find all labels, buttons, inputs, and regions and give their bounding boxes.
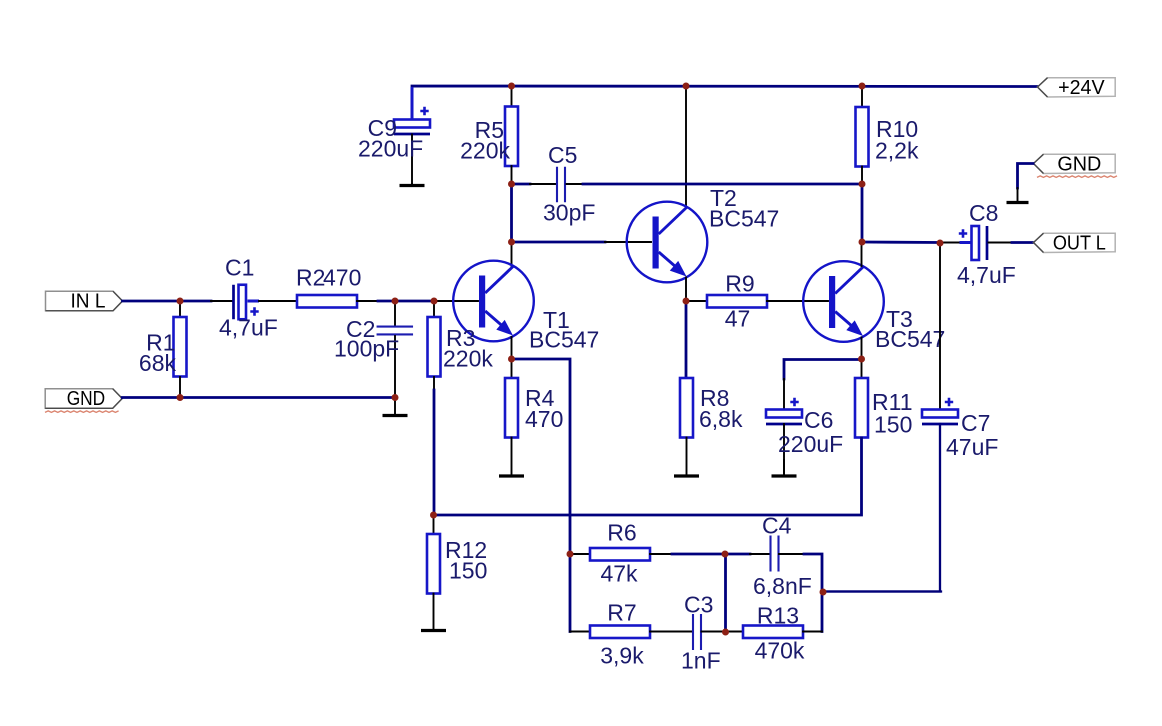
svg-text:C1: C1 (225, 255, 254, 281)
wire R5 bottom pin (511, 166, 513, 184)
node C4-C7 junction (820, 589, 827, 596)
wire C4 right pin (779, 553, 804, 555)
capacitor C8 4.7uF electrolytic (986, 226, 989, 260)
node rail-R10 junction (859, 83, 866, 90)
svg-text:220uF: 220uF (778, 431, 843, 457)
wire T1 collector to T2 base net (512, 241, 606, 244)
wire C1 right pin / R2 left pin (259, 300, 297, 302)
svg-text:C6: C6 (804, 407, 833, 433)
node C3-R13 junction (722, 629, 729, 636)
node T2 base junction (508, 239, 515, 246)
wire output net (862, 241, 940, 244)
wire C7 bottom horizontal (823, 590, 941, 592)
node T1 emitter junction (508, 356, 515, 363)
wire T2 emitter pin (685, 278, 687, 302)
wire C5 to R10 node (583, 183, 862, 186)
capacitor C1 4.7uF electrolytic (232, 285, 235, 320)
wire +24V rail (412, 86, 1038, 119)
svg-text:BC547: BC547 (709, 206, 779, 232)
wire C5 right pin (567, 183, 584, 185)
node R5-C5 junction (508, 181, 515, 188)
node T3 collector junction (859, 239, 866, 246)
svg-text:+24V: +24V (1058, 77, 1105, 99)
node C2 junction (392, 298, 399, 305)
capacitor C9 220uF electrolytic (394, 120, 430, 128)
svg-text:47: 47 (725, 306, 751, 332)
wire T2 emitter to R8 (685, 301, 688, 378)
wire C9 negative lead (411, 135, 413, 185)
resistor R3 220k (428, 317, 441, 377)
node input-R1 junction (177, 298, 184, 305)
ground below R12 (433, 594, 435, 630)
wire C3 right pin (702, 631, 726, 633)
svg-text:4,7uF: 4,7uF (957, 262, 1016, 288)
wire T2 base pin (605, 241, 651, 243)
wire R10 top pin (861, 86, 863, 107)
resistor R6 47k (590, 548, 650, 561)
svg-text:150: 150 (874, 412, 912, 438)
wire C2 bottom pin (394, 336, 396, 397)
transistor T1 BC547 (453, 261, 534, 342)
svg-text:BC547: BC547 (875, 326, 945, 352)
svg-text:R6: R6 (607, 520, 636, 546)
wire C4 left net (725, 553, 750, 556)
wire C6 positive pin (783, 379, 785, 410)
wire C7 bottom to feedback (824, 424, 941, 592)
svg-text:C5: C5 (548, 142, 577, 168)
spellcheck squiggle under GND (45, 411, 119, 413)
node R1-ground junction (177, 394, 184, 401)
C8 polarity + (959, 229, 967, 237)
wire T1 base pin (434, 300, 478, 302)
svg-text:BC547: BC547 (529, 327, 599, 353)
svg-text:GND: GND (67, 388, 106, 410)
svg-text:100pF: 100pF (334, 336, 399, 362)
wire R9 left pin (686, 300, 707, 302)
svg-text:1nF: 1nF (681, 648, 721, 674)
spellcheck squiggle under GND output (1037, 176, 1117, 178)
connector GND output (1034, 154, 1116, 173)
svg-text:470: 470 (323, 265, 361, 291)
svg-text:47uF: 47uF (946, 434, 998, 460)
svg-text:OUT L: OUT L (1053, 232, 1106, 254)
node rail-T2 junction (683, 83, 690, 90)
node R3-T1 base junction (431, 298, 438, 305)
wire GND connector drop (1018, 164, 1034, 189)
node T2 emitter junction (683, 298, 690, 305)
svg-text:C7: C7 (961, 410, 990, 436)
svg-text:470: 470 (525, 406, 563, 432)
wire C4 right to R13 right (804, 554, 822, 632)
wire T1 collector pin (511, 242, 513, 266)
wire ground net input (122, 396, 395, 399)
wire T1 emitter to R6 (512, 359, 571, 554)
node R10-C5 junction (859, 181, 866, 188)
svg-text:6,8nF: 6,8nF (753, 573, 812, 599)
transistor T3 BC547 (803, 261, 884, 342)
transistor T2 BC547 (627, 202, 708, 283)
wire C4 left pin (750, 553, 770, 555)
wire C9 positive lead (411, 87, 414, 119)
wire C5 left pin (530, 183, 556, 185)
wire R7 right pin / C3 left pin (650, 631, 693, 633)
resistor R11 150 (855, 378, 868, 438)
wire R1 bottom pin (179, 377, 181, 397)
ground below R4 (511, 438, 513, 476)
connector IN L (46, 291, 123, 311)
capacitor C4 6.8nF (771, 536, 779, 572)
wire R12 top pin (433, 515, 435, 534)
wire C6 negative lead (783, 424, 785, 474)
svg-text:68k: 68k (139, 350, 177, 376)
wire input net (123, 300, 212, 303)
C9 polarity + (420, 107, 428, 115)
node R6-C4 junction (722, 551, 729, 558)
wire R5 top pin (511, 86, 513, 107)
svg-text:C3: C3 (684, 592, 713, 618)
ground below C2 node (394, 398, 396, 415)
capacitor C2 100pF (377, 327, 414, 335)
resistor R2 470 (297, 295, 357, 308)
svg-text:2,2k: 2,2k (875, 138, 919, 164)
resistor R7 3.9k (590, 626, 650, 639)
svg-text:IN L: IN L (71, 291, 106, 313)
svg-text:R2: R2 (296, 265, 325, 291)
wire T1 emitter pin (511, 337, 513, 359)
node feedback rail junction (430, 512, 437, 519)
svg-text:470k: 470k (755, 638, 805, 664)
capacitor C6 220uF electrolytic (766, 410, 802, 418)
svg-text:220uF: 220uF (358, 136, 423, 162)
wire to OUT L (1012, 241, 1033, 244)
wire R1 top pin (179, 301, 181, 317)
node R6 left junction (567, 551, 574, 558)
wire R6 left pin (570, 553, 590, 555)
capacitor C5 30pF (557, 167, 565, 203)
wire R10 bottom pin (861, 167, 863, 185)
connector +24V (1038, 78, 1116, 97)
C6 polarity + (790, 398, 798, 406)
resistor R9 47 (707, 295, 767, 308)
wire R2 to T1 base net (378, 300, 434, 303)
wire C8 positive stub (960, 241, 972, 244)
resistor R12 150 (427, 534, 440, 594)
resistor R8 6.8k (680, 378, 693, 438)
node C8-C7 junction (937, 240, 944, 247)
wire R4 top pin (511, 359, 513, 378)
wire R13 right pin (803, 631, 822, 633)
wire T1 collector node vertical (510, 184, 513, 242)
svg-text:47k: 47k (600, 561, 638, 587)
ground below C6 (783, 460, 785, 475)
wire C8 right pin (989, 242, 1013, 244)
wire C8 left pin (940, 242, 960, 244)
resistor R1 68k (174, 317, 187, 377)
wire R6 right pin (650, 553, 672, 555)
wire C1 positive stub (248, 300, 260, 303)
wire C4 left to C3 right (724, 554, 727, 632)
ground below C9 (411, 183, 413, 186)
svg-text:30pF: 30pF (543, 200, 595, 226)
wire R11 top pin (861, 359, 863, 378)
wire R2 right pin (357, 300, 378, 302)
svg-text:GND: GND (1057, 153, 1101, 175)
svg-text:R7: R7 (607, 600, 636, 626)
wire R9 right pin to T3 base (767, 300, 828, 302)
capacitor C7 47uF electrolytic (922, 410, 958, 418)
wire R7 left pin (570, 631, 590, 633)
svg-text:220k: 220k (443, 346, 493, 372)
svg-text:3,9k: 3,9k (600, 643, 644, 669)
resistor R4 470 (505, 378, 518, 438)
ground below GND connector (1017, 188, 1019, 202)
svg-text:4,7uF: 4,7uF (219, 315, 278, 341)
svg-text:R9: R9 (725, 271, 754, 297)
wire C7 top lead (939, 243, 941, 410)
node C2-ground junction (392, 394, 399, 401)
C1 polarity + (250, 307, 258, 315)
wire C6 positive lead (784, 360, 862, 380)
svg-text:R13: R13 (757, 603, 799, 629)
wire R11 bottom to feedback rail (434, 438, 862, 515)
wire R6 left to R7 left vertical (569, 554, 572, 632)
wire C5 left net (512, 183, 531, 186)
wire R3 top pin (433, 301, 435, 317)
svg-text:C4: C4 (762, 513, 792, 539)
svg-text:150: 150 (449, 558, 487, 584)
capacitor C3 1nF (693, 614, 701, 650)
resistor R10 2.2k (856, 107, 869, 167)
connector GND input (45, 389, 122, 409)
resistor R5 220k (505, 107, 518, 167)
wire R13 left pin (726, 631, 744, 633)
wire C1 left pin (211, 300, 232, 302)
wire T2 collector pin (685, 86, 687, 207)
wire R10 to T3 collector (861, 184, 864, 242)
wire C2 top pin (394, 301, 396, 326)
node rail-R5 junction (508, 83, 515, 90)
wire R3 to feedback rail (433, 390, 436, 515)
connector OUT L (1034, 233, 1116, 252)
wire R3 bottom pin (433, 377, 435, 390)
svg-text:C8: C8 (969, 200, 998, 226)
wire T3 collector pin (861, 242, 863, 266)
svg-text:220k: 220k (460, 138, 510, 164)
svg-text:6,8k: 6,8k (699, 406, 743, 432)
ground below R8 (686, 438, 688, 476)
C7 polarity + (945, 398, 953, 406)
wire T3 emitter pin (861, 338, 863, 360)
resistor R13 470k (743, 626, 803, 639)
node T3 emitter junction (858, 356, 865, 363)
wire R6 to C4 net (672, 553, 725, 556)
